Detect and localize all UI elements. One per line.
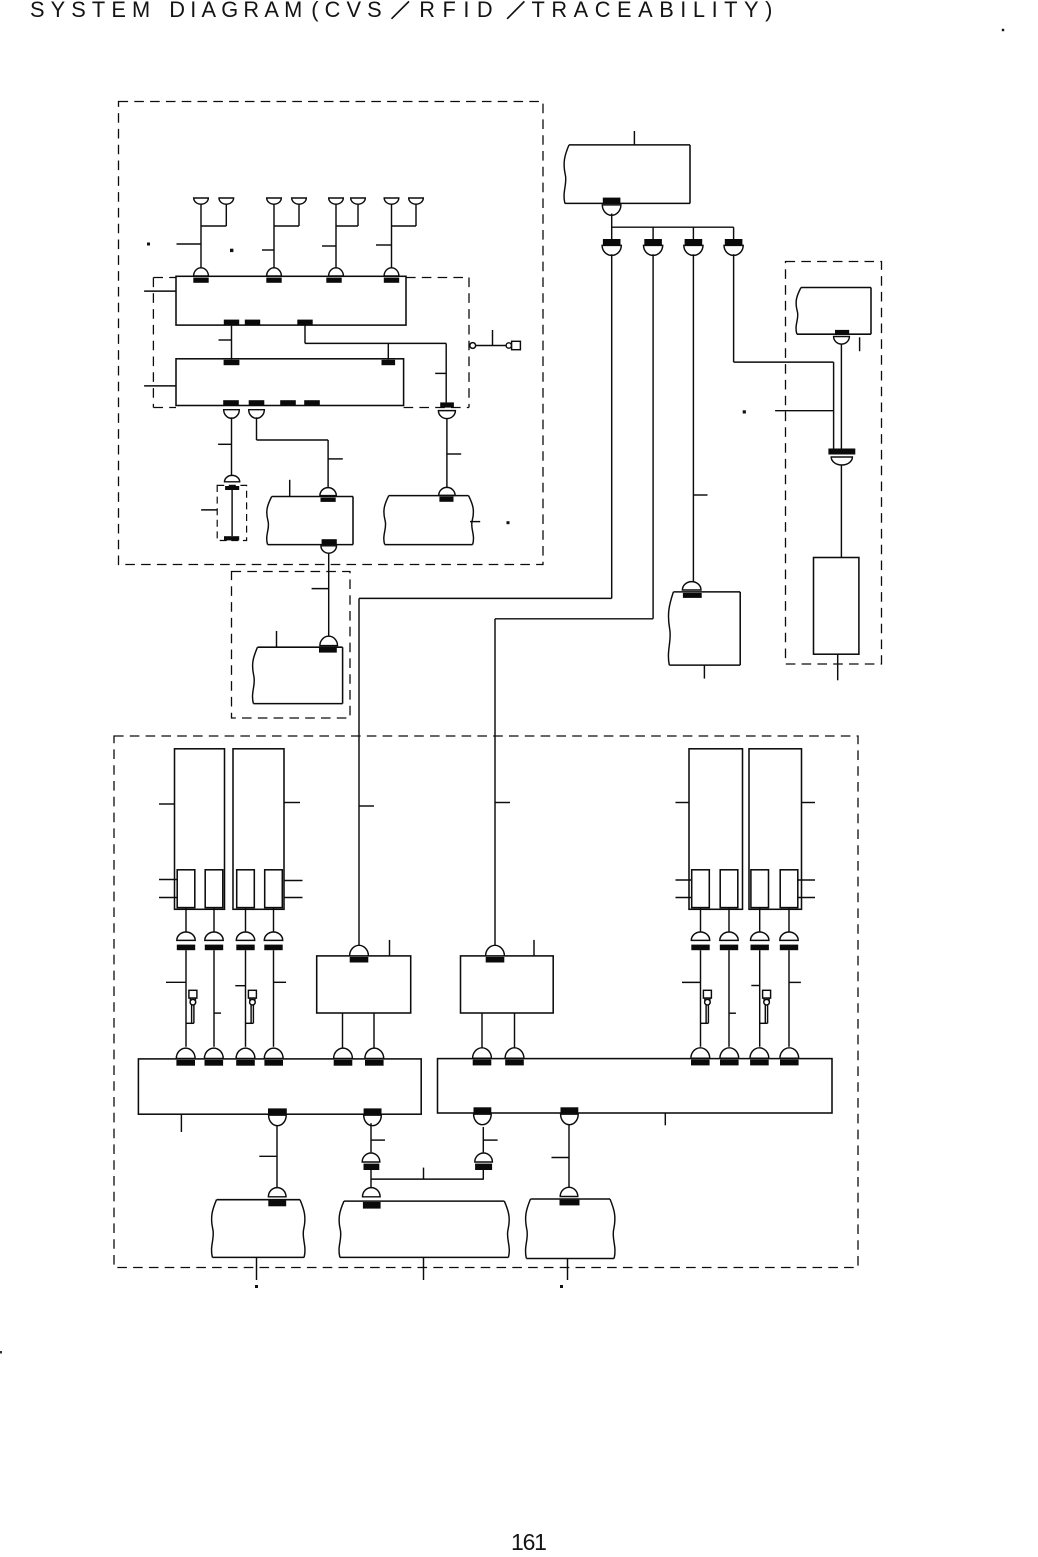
connector plug MB1 top 1	[176, 1048, 195, 1058]
connector recept. MB1 bottom 2	[364, 1108, 382, 1114]
connector recept. MB2 bottom 1	[474, 1107, 492, 1113]
wire W4: to dashed option group	[733, 254, 735, 362]
connector bar P3	[236, 945, 254, 951]
stub tick wire P8	[789, 981, 801, 983]
connector plug under U6	[602, 205, 621, 215]
connector plug P8	[780, 932, 798, 940]
stub wire U10 bottom	[256, 1257, 258, 1280]
connector plug on printer unit PR2	[439, 487, 455, 495]
connector recept. B2 bottom 2	[249, 400, 265, 405]
dashed enclosure: feeder/cassette group	[114, 736, 858, 1268]
connector plug on unit U10	[268, 1188, 286, 1197]
connector recept. MB1 top 1	[176, 1060, 195, 1066]
connector recept. B1 top 1	[193, 278, 208, 283]
sensor plug on wire P7	[760, 990, 771, 1023]
connector plug under MB2 bottom1	[474, 1114, 492, 1124]
stub wire BA top-right	[389, 940, 391, 956]
connector plug MB2 top 4	[720, 1048, 739, 1058]
page title	[30, 0, 156, 23]
wire U4 down to unit U5	[328, 553, 330, 636]
stub tick	[259, 1155, 277, 1157]
connector recept. U4 bottom	[322, 539, 337, 544]
connector recept. U7	[683, 593, 702, 598]
speck	[560, 1285, 563, 1288]
inline connector plug W2	[644, 245, 663, 255]
box B2: RFID controller board	[176, 359, 404, 406]
box BB: relay board B	[461, 956, 554, 1013]
wire W1: to relay box BA	[611, 254, 613, 598]
inline connector plug JB	[475, 1153, 493, 1162]
interlock connector pair CN-A (circle plug, square jack)	[470, 343, 476, 349]
stub tick on W2	[495, 802, 510, 804]
wire J3 to printer unit	[446, 419, 448, 488]
connector bar P5	[691, 945, 709, 951]
wire P6 to relay board	[728, 950, 730, 1047]
wire P5 to relay board	[700, 950, 702, 1047]
inline connector plug W4	[724, 245, 743, 255]
connector plug P1	[177, 932, 195, 940]
stub tick wire P3	[235, 985, 245, 987]
wire W3: to unit U7	[692, 254, 694, 582]
tag holder S7 in cassette	[751, 870, 769, 908]
connector recept. B2 bottom 4	[304, 400, 320, 405]
page number	[511, 1529, 546, 1556]
connector recept. MB2 top 4	[720, 1060, 739, 1066]
box U9: RF antenna module	[814, 558, 859, 655]
inline connector bar JB	[475, 1164, 492, 1170]
stub S5 left upper	[676, 879, 692, 881]
wire S4 down	[273, 908, 275, 933]
connector plug on unit U5	[320, 636, 338, 645]
stub tick	[552, 1157, 570, 1159]
wire drop 4	[733, 227, 735, 239]
connector bar P4	[264, 945, 282, 951]
stub wire MB2 bottom	[664, 1113, 666, 1125]
connector recept. MB2 top 6	[780, 1060, 799, 1066]
connector plug on unit U11	[363, 1188, 381, 1197]
crosslink wire JA-JB	[371, 1178, 483, 1180]
speck	[507, 521, 510, 524]
sensor plug on wire P5	[701, 990, 712, 1023]
title slash 1	[392, 1, 410, 18]
connector recept. MB2 top 3	[691, 1060, 710, 1066]
wire to battery BT1	[231, 417, 233, 476]
wire P7 to relay board	[759, 950, 761, 1047]
connector plug on BA	[350, 945, 369, 956]
wire BA out 2	[373, 1013, 375, 1048]
stub riser on crosslink	[423, 1168, 425, 1180]
harness split: 1 to 4	[611, 214, 613, 240]
connector plug under B2 bottom1	[224, 410, 240, 419]
wire P4 to relay board	[273, 950, 275, 1047]
connector plug P4	[264, 932, 282, 940]
connector recept. U4	[321, 498, 336, 502]
connector recept. BA top	[350, 957, 369, 963]
unit box U4 (wavy left)	[267, 497, 272, 545]
speck	[230, 249, 233, 252]
connector plug antenna AT3	[329, 268, 344, 276]
connector recept. MB2 top 5	[750, 1060, 769, 1066]
wire BB out 1	[481, 1013, 483, 1048]
stub wire antenna AT2	[262, 249, 274, 251]
box B1: RFID antenna multiplexer board	[176, 276, 406, 325]
unit box U12 (wavy)	[526, 1199, 531, 1259]
wire MB2 to unit U12	[568, 1124, 570, 1188]
inline connector bar JA	[364, 1164, 380, 1170]
antenna AT1 left element	[194, 198, 209, 204]
stub tick on wire	[219, 339, 232, 341]
cassette tower C3	[689, 749, 743, 910]
tag holder S8 in cassette	[780, 870, 798, 908]
connector plug MB1 top 6	[365, 1048, 384, 1058]
stub tick wire P1	[166, 981, 186, 983]
stub wire BT1 left	[201, 509, 217, 511]
connector recept. U12	[560, 1200, 580, 1206]
connector plug on unit U4	[320, 488, 336, 496]
connector recept. B1 bottom 2	[245, 320, 260, 325]
connector recept. MB1 top 3	[236, 1060, 255, 1066]
connector recept. MB1 top 4	[264, 1060, 283, 1066]
inline connector J3 plug	[438, 411, 455, 419]
tag holder S6 in cassette	[720, 870, 738, 908]
connector plug P3	[236, 932, 254, 940]
stub wire PR2 right	[470, 521, 480, 523]
wire MB1-2 down	[370, 1123, 372, 1152]
box BA: relay board A	[317, 956, 411, 1013]
connector plug under MB1 bottom1	[269, 1115, 287, 1126]
connector recept. B1 top 4	[384, 278, 399, 283]
connector plug P6	[720, 932, 738, 940]
sensor plug on wire P1	[186, 990, 197, 1023]
wire S1 down	[185, 908, 187, 933]
wire B2 bottom2 to card reader unit	[256, 417, 258, 440]
stub tick on W3	[693, 494, 707, 496]
connector bar P6	[720, 945, 738, 951]
connector recept. U6 bottom	[603, 198, 621, 204]
wire S8 down	[788, 908, 790, 933]
inline connector plug W3	[684, 245, 703, 255]
inline connector plug W1	[602, 245, 621, 255]
connector recept. B2 top 1	[224, 360, 240, 365]
inline connector plug JA	[362, 1153, 380, 1162]
antenna AT2 left element	[267, 198, 282, 204]
battery/backup component BT1 (dashed outline)	[217, 485, 246, 540]
unit box U7 (wavy left)	[668, 592, 673, 665]
connector bar P7	[751, 945, 769, 951]
connector recept. U5	[319, 647, 337, 652]
stub wire antenna AT3	[322, 245, 336, 247]
speck	[255, 1285, 258, 1288]
inline connector plug J8	[831, 457, 852, 465]
antenna AT4 right element	[409, 198, 424, 204]
wire B1 bottom3 to B2 top2 and to J3	[304, 325, 306, 343]
stub S1 left lower	[159, 897, 177, 899]
inline connector bar J8	[828, 449, 855, 455]
cassette tower C4	[749, 749, 802, 910]
connector recept. MB2 top 2	[505, 1060, 524, 1066]
inline connector bar W2	[644, 239, 662, 245]
connector plug antenna AT4	[384, 268, 399, 276]
wire MB1 to unit U10	[276, 1125, 278, 1188]
connector recept. B1 bottom 3	[297, 320, 312, 325]
antenna AT1 right element	[219, 198, 234, 204]
wire U8 down	[840, 344, 842, 448]
stub tick	[371, 1139, 385, 1141]
stub wire U4 top-left	[289, 480, 291, 497]
wire P3 to relay board	[245, 950, 247, 1047]
stub C2 right	[284, 802, 300, 804]
wire J8 to antenna RF unit	[840, 465, 842, 558]
box MB1: feeder control board left	[138, 1059, 421, 1114]
stub tick	[483, 1139, 497, 1141]
unit box U8 (wavy left)	[796, 288, 801, 335]
connector recept. MB2 top 1	[473, 1060, 492, 1066]
connector recept. BB top	[486, 957, 505, 963]
stub S8 right upper	[797, 879, 815, 881]
unit box PR2 (wavy)	[384, 496, 389, 545]
stub C3 left	[676, 802, 690, 804]
stub S5 left lower	[676, 897, 692, 899]
connector recept. B2 top 2	[382, 360, 396, 365]
connector plug MB1 top 4	[264, 1048, 283, 1058]
stub tick wire P5	[682, 981, 701, 983]
connector plug P5	[691, 932, 709, 940]
wire P8 to relay board	[788, 950, 790, 1047]
connector recept. MB1 bottom 1	[268, 1108, 287, 1114]
connector bar P8	[780, 945, 798, 951]
stub wire antenna AT1	[177, 243, 202, 245]
connector plug on unit U12	[560, 1187, 578, 1196]
connector recept. B1 top 2	[266, 278, 281, 283]
connector plug under MB2 bottom2	[561, 1114, 579, 1124]
stub tick	[447, 453, 461, 455]
box MB2: feeder control board right	[438, 1059, 833, 1113]
stub S1 left upper	[159, 879, 177, 881]
unit box U10 (wavy)	[212, 1200, 217, 1258]
wire S2 down	[213, 908, 215, 933]
stub wire U11 bottom	[423, 1257, 425, 1280]
connector bar P1	[177, 945, 195, 951]
stub S8 right lower	[797, 897, 815, 899]
stub C1 left	[159, 803, 175, 805]
connector plug MB1 top 5	[334, 1048, 353, 1058]
tag holder S4 in cassette	[265, 870, 283, 908]
BT1 terminal bottom	[224, 536, 239, 540]
tag holder S3 in cassette	[237, 870, 255, 908]
connector plug under U4	[321, 546, 337, 553]
inline connector bar W1	[603, 239, 621, 245]
wire P2 to relay board	[213, 950, 215, 1047]
stub tick on W1	[359, 805, 374, 807]
connector recept. B2 bottom 3	[280, 400, 296, 405]
antenna AT4 left element	[384, 198, 399, 204]
edge speck	[0, 1351, 2, 1354]
wire S6 down	[728, 908, 730, 933]
connector recept. U11	[363, 1202, 381, 1209]
connector plug under U8	[834, 337, 850, 345]
speck	[1002, 29, 1004, 31]
title slash 2	[507, 1, 524, 18]
dashed enclosure: RFID unit group	[119, 102, 544, 565]
stub tick wire P4	[274, 981, 287, 983]
sensor plug on wire P3	[246, 990, 257, 1023]
stub wire U12 bottom	[567, 1259, 569, 1281]
connector plug MB1 top 3	[236, 1048, 255, 1058]
inline connector bar W4	[725, 239, 743, 245]
unit box U6: main controller (wavy left)	[564, 145, 569, 204]
cassette tower C2	[233, 749, 284, 910]
stub wire U9 bottom	[837, 654, 839, 680]
wire drop 3	[692, 227, 694, 239]
connector plug MB2 top 2	[505, 1048, 524, 1058]
stub S4 right lower	[284, 897, 303, 899]
stub wire U8 right	[859, 337, 861, 351]
connector plug MB2 top 1	[473, 1048, 492, 1058]
stub tick wire P6	[729, 1012, 736, 1014]
wire S3 down	[245, 908, 247, 933]
connector recept. B1 top 3	[326, 278, 341, 283]
connector recept. U8 bottom	[835, 330, 849, 334]
speck	[743, 410, 746, 413]
connector plug MB1 top 2	[204, 1048, 223, 1058]
wire down to inline connector J3	[445, 343, 447, 402]
connector plug under MB1 bottom2	[364, 1115, 382, 1126]
connector recept. MB1 top 6	[365, 1060, 384, 1066]
connector plug on BB	[486, 945, 505, 956]
wire JB up to MB2	[482, 1127, 484, 1152]
stub wire U5 top-left	[276, 631, 278, 648]
stub tick	[312, 588, 329, 590]
stub wire into B1 left	[144, 290, 176, 292]
stub wire into B2 left	[144, 385, 176, 387]
stub tick	[435, 372, 446, 374]
connector recept. U10	[268, 1201, 286, 1207]
stub wire U6 top	[633, 131, 635, 145]
connector recept. B2 bottom 1	[223, 400, 239, 405]
connector plug MB2 top 3	[691, 1048, 710, 1058]
connector recept. B1 bottom 1	[224, 320, 239, 325]
wire JB down to crosslink	[482, 1170, 484, 1180]
connector plug antenna AT1	[194, 268, 209, 276]
connector recept. MB2 bottom 2	[561, 1107, 579, 1113]
wire JA down	[370, 1170, 372, 1188]
stub S4 right upper	[284, 880, 303, 882]
wire P1 to relay board	[185, 950, 187, 1047]
connector recept. PR2	[439, 497, 453, 502]
unit box U5 (wavy left)	[253, 647, 258, 703]
connector recept. MB1 top 2	[205, 1060, 224, 1066]
dashed enclosure around B1/B2 boards	[153, 277, 176, 279]
connector bar P2	[205, 945, 223, 951]
unit box U11 (wavy)	[339, 1201, 344, 1257]
connector plug P7	[751, 932, 769, 940]
antenna AT3 left element	[329, 198, 344, 204]
connector recept. MB1 top 5	[334, 1060, 353, 1066]
connector plug on battery BT1	[225, 475, 240, 481]
BT1 cell link	[231, 490, 233, 536]
wire S5 down	[700, 908, 702, 933]
dashed enclosure: option RFID writer group	[786, 262, 882, 665]
connector plug MB2 top 6	[780, 1048, 799, 1058]
tag holder S2 in cassette	[205, 870, 223, 908]
stub tick	[328, 458, 343, 460]
BT1 terminal top	[225, 486, 239, 490]
stub tick wire P2	[214, 1012, 221, 1014]
antenna AT3 right element	[351, 198, 366, 204]
connector plug antenna AT2	[267, 268, 282, 276]
stub wire into option group	[775, 410, 834, 412]
stub wire MB1 bottom-left	[180, 1114, 182, 1132]
wire drop 2	[652, 227, 654, 239]
wire B1 bottom1 to B2 top1	[231, 325, 233, 360]
wire S7 down	[759, 908, 761, 933]
connector plug P2	[205, 932, 223, 940]
inline connector J3 bar	[440, 402, 454, 407]
connector plug under B2 bottom2	[249, 410, 265, 419]
connector plug MB2 top 5	[750, 1048, 769, 1058]
cassette tower C1	[175, 749, 225, 910]
stub tick wire P7	[751, 985, 759, 987]
wire BB out 2	[514, 1013, 516, 1048]
stub C4 right	[802, 802, 816, 804]
wire BA out 1	[342, 1013, 344, 1048]
tag holder S5 in cassette	[692, 870, 710, 908]
stub tick	[218, 443, 231, 445]
connector plug on unit U7	[682, 582, 701, 590]
dashed enclosure: option unit U5	[232, 572, 351, 719]
tag holder S1 in cassette	[177, 870, 195, 908]
stub wire U7 bottom	[703, 665, 705, 679]
stub wire BB top-right	[533, 940, 535, 956]
antenna AT2 right element	[292, 198, 307, 204]
wire W2: to relay box BB	[652, 254, 654, 619]
speck	[147, 243, 150, 246]
stub wire antenna AT4	[376, 244, 392, 246]
inline connector bar W3	[685, 239, 703, 245]
